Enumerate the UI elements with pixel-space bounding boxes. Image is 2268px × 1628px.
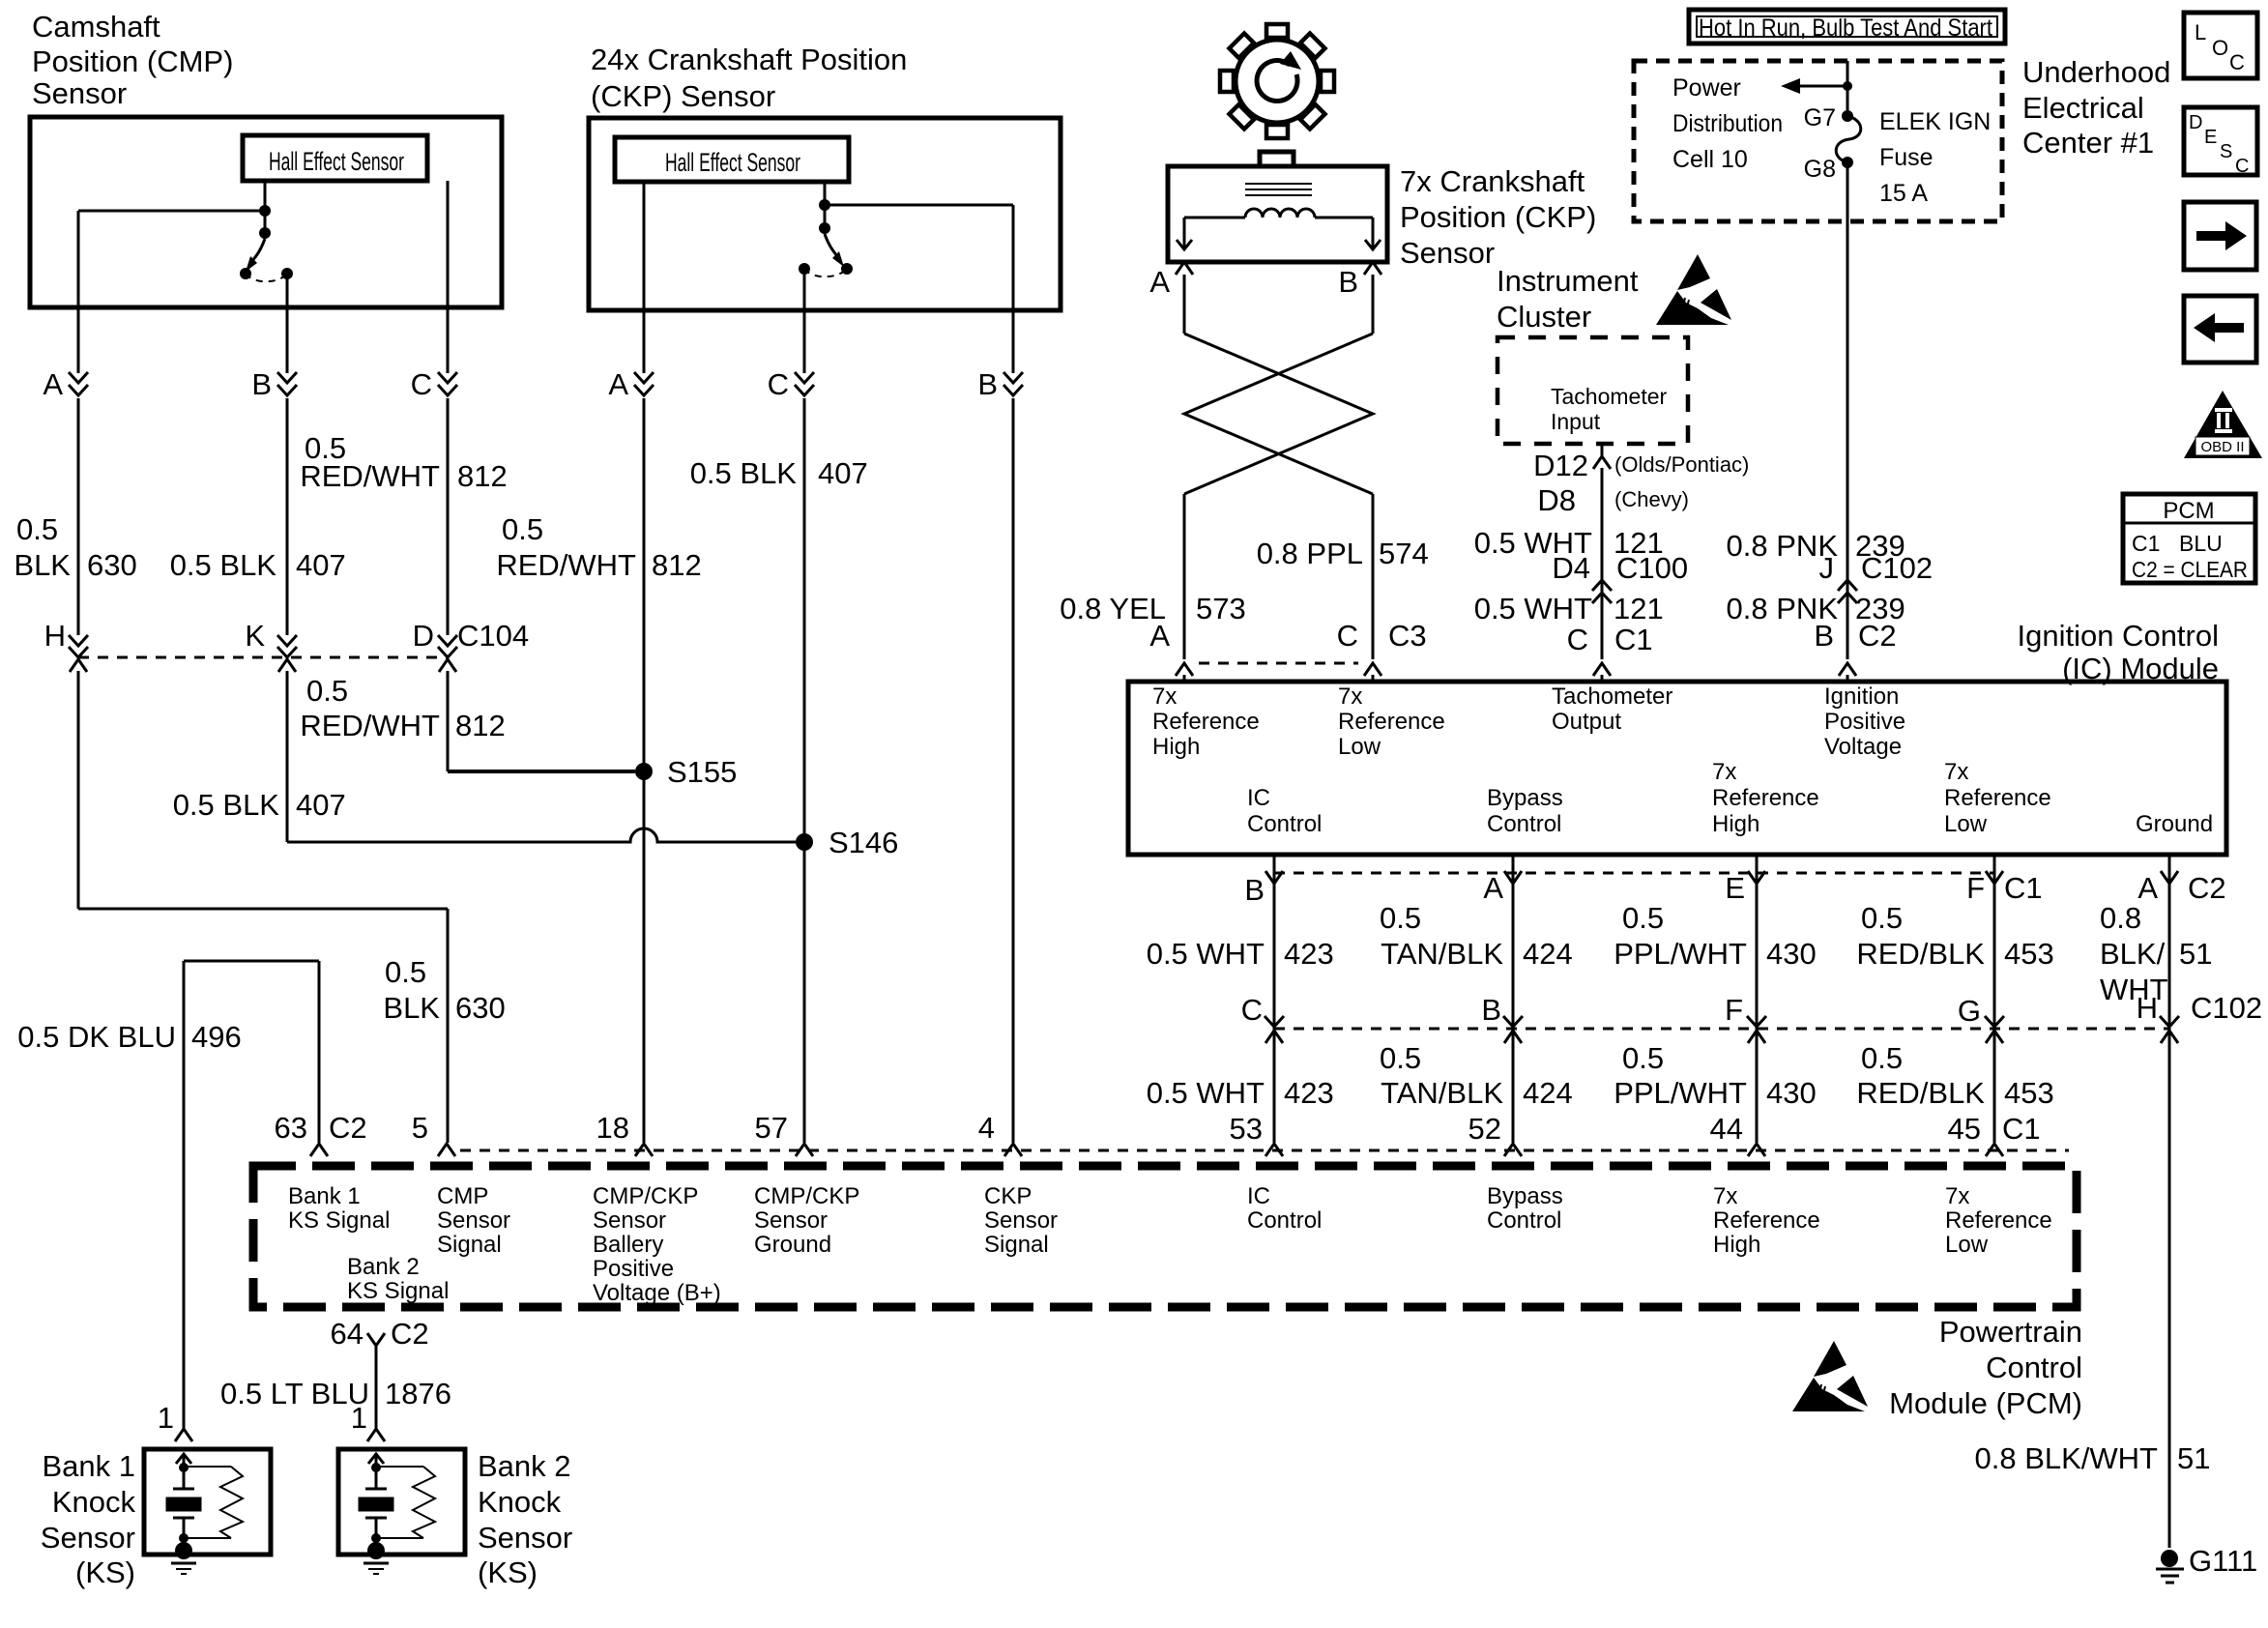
svg-text:C: C (1241, 993, 1263, 1027)
svg-text:TAN/BLK: TAN/BLK (1381, 1076, 1503, 1110)
svg-text:O: O (2212, 36, 2228, 60)
svg-text:C: C (2235, 156, 2249, 177)
svg-text:BLU: BLU (2179, 531, 2223, 556)
svg-text:RED/BLK: RED/BLK (1856, 1076, 1985, 1110)
svg-text:Reference: Reference (1713, 1207, 1820, 1234)
svg-text:Cluster: Cluster (1497, 300, 1591, 334)
svg-text:44: 44 (1710, 1112, 1743, 1146)
svg-text:630: 630 (455, 991, 506, 1025)
svg-text:B: B (1481, 993, 1501, 1027)
svg-text:Input: Input (1551, 409, 1601, 434)
svg-text:Sensor: Sensor (478, 1521, 572, 1555)
svg-text:Bank 1: Bank 1 (288, 1183, 361, 1209)
svg-text:407: 407 (818, 456, 868, 490)
svg-text:Bank 2: Bank 2 (347, 1254, 420, 1280)
svg-text:Reference: Reference (1712, 785, 1819, 811)
svg-text:Positive: Positive (1824, 709, 1905, 735)
svg-text:B: B (251, 367, 272, 401)
svg-text:BLK/: BLK/ (2100, 937, 2166, 971)
svg-text:WHT: WHT (2100, 973, 2168, 1006)
svg-text:C1: C1 (2002, 1112, 2041, 1146)
svg-text:453: 453 (2004, 937, 2054, 971)
svg-text:C: C (2229, 50, 2245, 74)
svg-text:PPL/WHT: PPL/WHT (1614, 937, 1747, 971)
svg-text:Low: Low (1944, 811, 1988, 837)
svg-text:18: 18 (596, 1111, 629, 1145)
svg-text:424: 424 (1523, 1076, 1573, 1110)
svg-text:G: G (1958, 994, 1981, 1028)
svg-text:0.5: 0.5 (306, 674, 348, 708)
svg-text:C102: C102 (1861, 551, 1933, 585)
svg-text:A: A (1149, 265, 1170, 299)
svg-text:Ground: Ground (2136, 811, 2213, 837)
svg-text:Sensor: Sensor (984, 1207, 1058, 1234)
svg-text:(Chevy): (Chevy) (1614, 487, 1689, 511)
svg-text:ELEK IGN: ELEK IGN (1879, 108, 1991, 135)
svg-text:High: High (1712, 811, 1759, 837)
svg-text:0.5 BLK: 0.5 BLK (173, 788, 280, 822)
svg-text:C102: C102 (2191, 991, 2262, 1025)
svg-text:51: 51 (2177, 1441, 2210, 1475)
svg-text:45: 45 (1948, 1112, 1981, 1146)
svg-text:Bypass: Bypass (1487, 1183, 1563, 1209)
svg-text:(CKP) Sensor: (CKP) Sensor (591, 79, 775, 113)
svg-text:C: C (1567, 623, 1588, 656)
svg-text:7x: 7x (1712, 759, 1736, 785)
svg-text:64: 64 (331, 1317, 363, 1351)
svg-text:A: A (608, 367, 628, 401)
svg-text:0.8 BLK/WHT: 0.8 BLK/WHT (1975, 1441, 2159, 1475)
svg-text:C2: C2 (391, 1317, 429, 1351)
svg-text:CMP: CMP (437, 1183, 488, 1209)
svg-text:57: 57 (755, 1111, 788, 1145)
svg-text:Reference: Reference (1944, 785, 2051, 811)
svg-text:G111: G111 (2189, 1544, 2257, 1578)
svg-text:D12: D12 (1533, 449, 1588, 482)
svg-text:Control: Control (1247, 811, 1322, 837)
svg-text:1: 1 (158, 1401, 174, 1435)
svg-text:(Olds/Pontiac): (Olds/Pontiac) (1614, 452, 1749, 477)
svg-text:Hall Effect Sensor: Hall Effect Sensor (665, 148, 800, 177)
svg-text:High: High (1713, 1232, 1760, 1258)
svg-text:0.5 DK BLU: 0.5 DK BLU (17, 1020, 176, 1054)
svg-text:Electrical: Electrical (2022, 91, 2144, 125)
svg-text:G8: G8 (1804, 156, 1836, 183)
svg-text:7x: 7x (1945, 1183, 1969, 1209)
svg-text:407: 407 (296, 548, 346, 582)
svg-text:C1: C1 (2004, 871, 2043, 905)
svg-text:63: 63 (275, 1111, 307, 1145)
svg-text:C2: C2 (2188, 871, 2226, 905)
svg-text:High: High (1152, 734, 1200, 760)
svg-text:15 A: 15 A (1879, 180, 1928, 207)
svg-text:496: 496 (191, 1020, 242, 1054)
svg-text:B: B (977, 367, 998, 401)
svg-text:G7: G7 (1804, 104, 1836, 131)
svg-text:Sensor: Sensor (32, 76, 127, 110)
svg-text:Bank 2: Bank 2 (478, 1449, 571, 1483)
svg-text:Reference: Reference (1152, 709, 1260, 735)
svg-text:Fuse: Fuse (1879, 144, 1934, 171)
svg-text:1: 1 (351, 1401, 367, 1435)
svg-text:0.8 PPL: 0.8 PPL (1257, 537, 1363, 570)
svg-text:RED/WHT: RED/WHT (300, 709, 440, 742)
svg-text:D4: D4 (1552, 551, 1590, 585)
svg-text:K: K (245, 619, 265, 653)
svg-text:RED/BLK: RED/BLK (1856, 937, 1985, 971)
svg-text:Ground: Ground (754, 1232, 831, 1258)
svg-text:B: B (1814, 619, 1834, 653)
svg-text:E: E (2204, 127, 2217, 148)
svg-text:Sensor: Sensor (437, 1207, 510, 1234)
svg-text:0.5 BLK: 0.5 BLK (690, 456, 798, 490)
svg-text:Ignition: Ignition (1824, 683, 1899, 710)
svg-text:0.5 WHT: 0.5 WHT (1147, 1076, 1265, 1110)
svg-text:Instrument: Instrument (1497, 264, 1639, 298)
svg-text:Power: Power (1672, 74, 1741, 102)
svg-text:OBD II: OBD II (2200, 439, 2244, 455)
svg-text:7x: 7x (1713, 1183, 1737, 1209)
svg-text:B: B (1244, 873, 1265, 907)
svg-text:C3: C3 (1388, 619, 1427, 653)
svg-text:0.5 BLK: 0.5 BLK (170, 548, 277, 582)
svg-text:(KS): (KS) (478, 1555, 538, 1589)
svg-text:IC: IC (1247, 785, 1270, 811)
svg-text:C1: C1 (1614, 623, 1653, 656)
svg-text:C: C (768, 367, 789, 401)
svg-text:0.5: 0.5 (1861, 901, 1903, 935)
svg-text:7x: 7x (1338, 683, 1362, 710)
svg-text:IC: IC (1247, 1183, 1270, 1209)
svg-text:S: S (2220, 141, 2232, 162)
svg-text:F: F (1725, 993, 1743, 1027)
svg-text:4: 4 (978, 1111, 995, 1145)
svg-text:C2: C2 (329, 1111, 367, 1145)
svg-text:812: 812 (652, 548, 702, 582)
svg-text:D: D (2189, 112, 2202, 133)
svg-text:Signal: Signal (984, 1232, 1049, 1258)
svg-text:51: 51 (2179, 937, 2212, 971)
svg-text:Voltage (B+): Voltage (B+) (593, 1280, 721, 1306)
svg-text:0.5: 0.5 (1861, 1041, 1903, 1075)
svg-text:C1: C1 (2132, 531, 2160, 556)
svg-text:BLK: BLK (14, 548, 71, 582)
svg-text:A: A (1149, 619, 1170, 653)
svg-text:Control: Control (1487, 1207, 1561, 1234)
svg-text:CKP: CKP (984, 1183, 1032, 1209)
svg-text:0.5 WHT: 0.5 WHT (1147, 937, 1265, 971)
svg-text:Control: Control (1487, 811, 1561, 837)
svg-text:C: C (1337, 619, 1358, 653)
svg-text:TAN/BLK: TAN/BLK (1381, 937, 1503, 971)
svg-text:D8: D8 (1537, 483, 1576, 517)
svg-text:Ballery: Ballery (593, 1232, 663, 1258)
svg-text:S146: S146 (829, 826, 898, 859)
svg-text:L: L (2195, 20, 2206, 44)
svg-text:Low: Low (1945, 1232, 1989, 1258)
svg-text:C2: C2 (1858, 619, 1897, 653)
svg-text:0.5 LT BLU: 0.5 LT BLU (220, 1377, 369, 1410)
svg-text:52: 52 (1468, 1112, 1501, 1146)
svg-text:573: 573 (1196, 592, 1246, 625)
svg-text:C2 = CLEAR: C2 = CLEAR (2132, 557, 2248, 582)
svg-text:0.5: 0.5 (502, 512, 543, 546)
svg-text:0.5: 0.5 (1622, 1041, 1664, 1075)
svg-text:453: 453 (2004, 1076, 2054, 1110)
svg-text:RED/WHT: RED/WHT (300, 459, 440, 493)
svg-text:Knock: Knock (478, 1485, 562, 1519)
svg-text:Signal: Signal (437, 1232, 502, 1258)
svg-text:Position (CKP): Position (CKP) (1400, 200, 1596, 234)
svg-text:Ignition Control: Ignition Control (2017, 619, 2219, 653)
svg-text:121: 121 (1614, 592, 1664, 625)
svg-text:Knock: Knock (52, 1485, 136, 1519)
svg-text:1876: 1876 (385, 1377, 451, 1410)
svg-text:S155: S155 (667, 755, 737, 789)
svg-text:KS Signal: KS Signal (347, 1278, 449, 1304)
svg-text:0.8: 0.8 (2100, 901, 2141, 935)
svg-text:407: 407 (296, 788, 346, 822)
svg-text:812: 812 (455, 709, 506, 742)
svg-text:E: E (1725, 871, 1745, 905)
svg-text:Tachometer: Tachometer (1552, 683, 1672, 710)
svg-text:F: F (1966, 871, 1985, 905)
svg-text:630: 630 (87, 548, 137, 582)
svg-text:424: 424 (1523, 937, 1573, 971)
svg-text:430: 430 (1766, 937, 1817, 971)
svg-text:Camshaft: Camshaft (32, 10, 160, 44)
svg-text:CMP/CKP: CMP/CKP (593, 1183, 698, 1209)
svg-text:53: 53 (1230, 1112, 1263, 1146)
svg-text:J: J (1819, 551, 1835, 585)
svg-text:Reference: Reference (1945, 1207, 2052, 1234)
svg-text:A: A (43, 367, 63, 401)
svg-text:0.5: 0.5 (1380, 901, 1421, 935)
svg-text:Sensor: Sensor (593, 1207, 666, 1234)
svg-text:D: D (413, 619, 434, 653)
svg-text:Bank 1: Bank 1 (42, 1449, 135, 1483)
svg-text:Voltage: Voltage (1824, 734, 1902, 760)
svg-text:Sensor: Sensor (1400, 236, 1495, 270)
svg-text:Positive: Positive (593, 1256, 674, 1282)
svg-text:Output: Output (1552, 709, 1621, 735)
svg-text:7x Crankshaft: 7x Crankshaft (1400, 164, 1585, 198)
svg-text:Sensor: Sensor (754, 1207, 828, 1234)
svg-text:5: 5 (412, 1111, 428, 1145)
svg-text:Sensor: Sensor (41, 1521, 135, 1555)
svg-text:A: A (2137, 871, 2158, 905)
svg-text:24x Crankshaft Position: 24x Crankshaft Position (591, 43, 907, 76)
svg-text:0.5: 0.5 (16, 512, 58, 546)
svg-text:0.5: 0.5 (1380, 1041, 1421, 1075)
svg-text:430: 430 (1766, 1076, 1817, 1110)
svg-text:Distribution: Distribution (1672, 110, 1783, 137)
svg-text:Reference: Reference (1338, 709, 1445, 735)
svg-text:KS Signal: KS Signal (288, 1207, 390, 1234)
svg-text:PPL/WHT: PPL/WHT (1614, 1076, 1747, 1110)
svg-text:Position (CMP): Position (CMP) (32, 44, 233, 78)
svg-text:H: H (44, 619, 66, 653)
svg-text:Underhood: Underhood (2022, 55, 2170, 89)
svg-text:C100: C100 (1616, 551, 1688, 585)
svg-text:C: C (411, 367, 432, 401)
svg-text:0.5: 0.5 (1622, 901, 1664, 935)
svg-text:423: 423 (1284, 937, 1334, 971)
svg-text:H: H (2137, 991, 2158, 1025)
svg-text:B: B (1338, 265, 1358, 299)
svg-text:7x: 7x (1944, 759, 1968, 785)
svg-text:Control: Control (1986, 1351, 2082, 1384)
svg-text:Low: Low (1338, 734, 1381, 760)
svg-text:Bypass: Bypass (1487, 785, 1563, 811)
svg-text:Hot In Run, Bulb Test And Star: Hot In Run, Bulb Test And Start (1699, 15, 1992, 42)
svg-text:574: 574 (1379, 537, 1429, 570)
svg-text:C104: C104 (457, 619, 529, 653)
svg-text:CMP/CKP: CMP/CKP (754, 1183, 859, 1209)
svg-text:Tachometer: Tachometer (1551, 384, 1668, 409)
svg-text:BLK: BLK (383, 991, 440, 1025)
svg-text:0.5: 0.5 (385, 955, 426, 989)
svg-text:Center #1: Center #1 (2022, 126, 2154, 160)
svg-text:7x: 7x (1152, 683, 1177, 710)
svg-text:(KS): (KS) (75, 1555, 135, 1589)
svg-text:0.5 WHT: 0.5 WHT (1474, 592, 1592, 625)
svg-text:Control: Control (1247, 1207, 1322, 1234)
svg-text:RED/WHT: RED/WHT (496, 548, 636, 582)
svg-text:A: A (1483, 871, 1503, 905)
svg-text:Powertrain: Powertrain (1939, 1315, 2082, 1349)
svg-text:Module (PCM): Module (PCM) (1889, 1386, 2082, 1420)
svg-text:812: 812 (457, 459, 508, 493)
svg-text:PCM: PCM (2163, 498, 2214, 524)
svg-text:Hall Effect Sensor: Hall Effect Sensor (269, 147, 404, 176)
svg-text:Cell 10: Cell 10 (1672, 146, 1748, 173)
svg-text:423: 423 (1284, 1076, 1334, 1110)
